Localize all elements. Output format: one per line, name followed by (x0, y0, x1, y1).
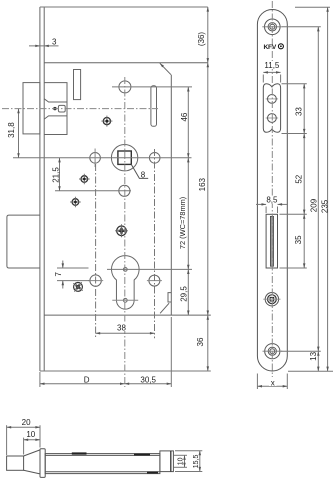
svg-text:3: 3 (52, 37, 57, 46)
svg-text:8,5: 8,5 (266, 196, 278, 205)
svg-text:21,5: 21,5 (51, 167, 60, 183)
svg-text:30,5: 30,5 (140, 375, 156, 384)
svg-text:7: 7 (54, 272, 63, 277)
svg-text:46: 46 (180, 112, 189, 121)
svg-text:35: 35 (294, 235, 303, 244)
svg-text:72 (WC=78mm): 72 (WC=78mm) (178, 197, 187, 249)
svg-text:20: 20 (22, 418, 31, 427)
svg-text:D: D (84, 375, 90, 384)
svg-text:52: 52 (295, 174, 304, 183)
svg-text:33: 33 (294, 107, 303, 116)
svg-text:36: 36 (196, 337, 205, 346)
svg-text:KFV: KFV (264, 44, 277, 51)
svg-text:31,8: 31,8 (7, 122, 16, 138)
svg-text:235: 235 (321, 199, 330, 213)
svg-text:8: 8 (141, 171, 146, 180)
svg-text:38: 38 (117, 323, 126, 332)
svg-text:x: x (271, 378, 275, 387)
svg-text:209: 209 (309, 198, 318, 212)
svg-text:10: 10 (26, 430, 35, 439)
svg-text:13: 13 (309, 351, 318, 360)
svg-text:163: 163 (198, 177, 207, 191)
svg-text:15,5: 15,5 (193, 454, 200, 468)
svg-text:11,5: 11,5 (264, 61, 280, 70)
svg-text:10: 10 (177, 457, 184, 465)
svg-text:29,5: 29,5 (180, 286, 189, 302)
svg-text:(36): (36) (197, 32, 206, 47)
